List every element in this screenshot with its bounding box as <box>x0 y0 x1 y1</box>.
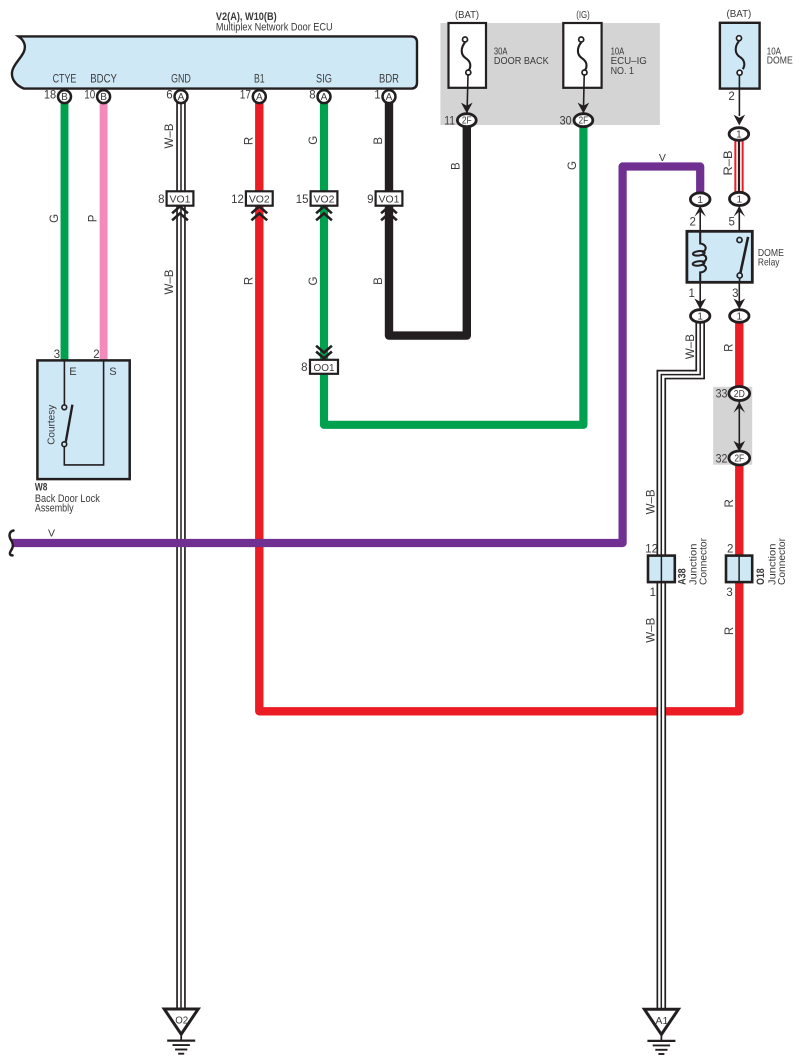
arrow into 30-2F <box>578 103 590 114</box>
svg-text:1: 1 <box>697 195 703 206</box>
svg-text:G: G <box>567 161 579 170</box>
connector 8 VO1 <box>158 191 193 220</box>
svg-text:A: A <box>386 92 393 103</box>
wire label R-B (dome feed) <box>723 150 735 175</box>
svg-text:V: V <box>48 528 55 540</box>
ECU pin 8 connector circle A <box>309 90 330 104</box>
connector 11 2F <box>444 114 476 128</box>
connector 33 2D <box>716 387 750 401</box>
svg-text:BDCY: BDCY <box>90 74 117 86</box>
pin number 3 (relay) <box>732 288 738 300</box>
svg-text:W8: W8 <box>35 482 48 494</box>
pin number 5 (relay) <box>728 216 734 228</box>
connector 1 above relay pin 5 (R-B wire) <box>730 192 750 216</box>
connector 1 (dome fuse output) <box>729 128 749 141</box>
svg-text:R: R <box>723 344 735 352</box>
relay coil <box>692 232 706 282</box>
connector 12 VO2 <box>231 191 273 220</box>
wire label W-B (GND) upper <box>164 123 176 148</box>
svg-text:B: B <box>373 137 385 145</box>
relay DOME Relay box <box>687 231 752 282</box>
wire G from ECU SIG pin 8 through OO1 down-right to ECU-IG fuse output 30-2F <box>324 100 583 425</box>
svg-text:5: 5 <box>728 216 734 228</box>
junction connector A38 <box>648 556 675 583</box>
svg-text:3: 3 <box>726 587 732 599</box>
node label V (horizontal wire) <box>48 528 55 540</box>
svg-text:1: 1 <box>650 587 656 599</box>
svg-text:VO1: VO1 <box>379 194 400 206</box>
svg-text:6: 6 <box>166 90 172 102</box>
svg-text:O18: O18 <box>755 568 767 585</box>
connector 32 2F <box>716 451 750 465</box>
connector 1 above relay pin 2 (V wire) <box>690 193 710 217</box>
wire label B (BDR) upper <box>373 137 385 145</box>
svg-text:W–B: W–B <box>645 489 657 514</box>
ground A1 <box>644 1009 678 1054</box>
svg-text:3: 3 <box>732 288 738 300</box>
relay pin 1 lead <box>699 282 701 310</box>
svg-text:W–B: W–B <box>164 269 176 294</box>
svg-text:(IG): (IG) <box>576 9 590 21</box>
pin number 2 (relay) <box>689 216 695 228</box>
label Courtesy <box>46 404 58 445</box>
relay pin 3 lead <box>738 282 740 310</box>
label O18 Junction Connector <box>755 538 788 585</box>
fuse 10A ECU-IG NO. 1 (IG) <box>563 23 601 114</box>
wire R from DOME relay pin 3 down to connector 33-2D <box>735 320 743 388</box>
svg-text:W–B: W–B <box>685 334 697 359</box>
svg-text:R: R <box>724 627 736 635</box>
arrow into dome feed connector <box>734 115 746 126</box>
continuation squiggle at left end of wire V <box>10 531 14 556</box>
svg-text:12: 12 <box>231 194 244 206</box>
svg-text:A: A <box>321 92 328 103</box>
relay switch contacts <box>737 237 748 282</box>
svg-text:32: 32 <box>716 453 728 465</box>
svg-text:2F: 2F <box>462 116 472 127</box>
junction O18 pin 3 <box>726 587 732 599</box>
junction A38 pin 12 <box>645 543 658 555</box>
fuse block shading (BAT/IG) <box>440 23 660 125</box>
link between 33-2D and 32-2F <box>734 398 746 452</box>
ECU pin label BDR <box>379 74 399 86</box>
svg-text:VO2: VO2 <box>249 194 270 206</box>
svg-text:2: 2 <box>728 91 734 103</box>
ECU V2(A) W10(B) Multiplex Network Door ECU box <box>12 36 417 88</box>
svg-text:GND: GND <box>171 74 191 86</box>
svg-text:CTYE: CTYE <box>53 74 77 86</box>
wire label R (B1) lower <box>243 277 255 285</box>
ECU pin label GND <box>171 74 191 86</box>
svg-text:Multiplex Network Door ECU: Multiplex Network Door ECU <box>216 21 333 33</box>
svg-text:R: R <box>724 499 736 507</box>
wire G from ECU CTYE pin 18 to W8 pin 3 <box>61 100 69 361</box>
svg-text:S: S <box>109 366 116 378</box>
label A38 Junction Connector <box>677 538 710 585</box>
wire R-B from DOME fuse connector to relay pin 5 connector <box>734 139 743 193</box>
svg-text:3: 3 <box>54 349 60 361</box>
svg-text:B: B <box>373 277 385 285</box>
label 10A ECU-IG NO. 1 <box>611 45 647 77</box>
relay pin 2 lead <box>699 205 701 231</box>
svg-text:10: 10 <box>84 90 95 102</box>
wire label G (CTYE) <box>49 214 61 223</box>
pin number 2 of DOME fuse <box>728 91 734 103</box>
svg-text:OO1: OO1 <box>314 362 335 374</box>
connector 1 below relay pin 3 <box>730 299 749 323</box>
svg-text:1: 1 <box>736 129 742 140</box>
svg-text:O2: O2 <box>175 1015 188 1027</box>
svg-text:15: 15 <box>296 194 309 206</box>
svg-text:G: G <box>308 276 320 285</box>
wire label B (BDR) lower <box>373 277 385 285</box>
label 30A DOOR BACK <box>494 45 549 67</box>
ECU pin 17 connector circle A <box>240 90 266 104</box>
svg-text:W–B: W–B <box>645 617 657 642</box>
arrow into 11-2F <box>461 103 473 114</box>
svg-text:Courtesy: Courtesy <box>46 404 58 445</box>
svg-text:VO2: VO2 <box>314 194 335 206</box>
junction O18 pin 2 <box>727 543 733 555</box>
W8 courtesy switch <box>62 360 104 465</box>
svg-text:1: 1 <box>374 90 380 102</box>
ECU pin 6 connector circle A <box>166 90 187 104</box>
svg-text:DOME: DOME <box>767 54 793 66</box>
svg-text:SIG: SIG <box>316 74 332 86</box>
svg-text:(BAT): (BAT) <box>455 9 479 21</box>
svg-text:(BAT): (BAT) <box>727 8 752 20</box>
svg-text:2F: 2F <box>734 453 744 464</box>
svg-text:A: A <box>178 92 185 103</box>
svg-text:2D: 2D <box>734 389 745 400</box>
ECU pin label BDCY <box>90 74 117 86</box>
svg-text:Connector: Connector <box>697 538 709 585</box>
label 10A DOME <box>767 46 793 67</box>
svg-text:8: 8 <box>309 90 315 102</box>
ECU pin label B1 <box>254 74 265 86</box>
wire B from ECU BDR pin 1 right-up to DOOR BACK fuse output 11-2F <box>389 100 467 336</box>
wire label W-B (GND) lower <box>164 269 176 294</box>
label (IG) above ECU-IG fuse <box>576 9 590 21</box>
svg-text:2: 2 <box>689 216 695 228</box>
label (BAT) above DOOR BACK fuse <box>455 9 479 21</box>
wire from DOME fuse pin 2 <box>738 76 740 116</box>
svg-text:1: 1 <box>697 311 703 322</box>
connector shading (2D/2F block) <box>713 387 752 465</box>
wire label W-B above A38 <box>645 489 657 514</box>
svg-text:33: 33 <box>716 389 728 401</box>
ECU pin 10 connector circle B <box>84 90 110 104</box>
label W8 Back Door Lock Assembly <box>35 482 100 515</box>
wire R from ECU B1 pin 17 down, right along y=711, up to junction O18 (net B1/dome) <box>259 100 739 711</box>
svg-text:A1: A1 <box>655 1015 668 1027</box>
svg-text:11: 11 <box>444 115 455 127</box>
wire label W-B (relay pin 1) <box>685 334 697 359</box>
svg-text:R: R <box>243 277 255 285</box>
svg-text:2: 2 <box>93 349 99 361</box>
svg-text:9: 9 <box>367 194 373 206</box>
fuse 30A DOOR BACK (BAT) <box>449 23 487 114</box>
svg-text:1: 1 <box>737 311 743 322</box>
wire label B (DOOR BACK fuse) <box>450 162 462 170</box>
connector 1 below relay pin 1 <box>691 299 710 323</box>
wire V from left edge to dome relay pin 2 (node V) <box>12 167 700 544</box>
svg-text:8: 8 <box>158 194 164 206</box>
wire label R below O18 <box>724 627 736 635</box>
connector 15 VO2 <box>296 191 338 220</box>
svg-text:P: P <box>88 214 100 222</box>
W8 pin 3 number <box>54 349 60 361</box>
wire W-B from ECU GND pin 6 down to ground O2 <box>176 100 186 1010</box>
wire label G (SIG) lower <box>308 276 320 285</box>
svg-text:A: A <box>256 92 263 103</box>
ECU pin label SIG <box>316 74 332 86</box>
svg-text:B1: B1 <box>254 74 265 86</box>
wire label P (BDCY) <box>88 214 100 222</box>
ECU pin 18 connector circle B <box>44 90 71 104</box>
W8 pin 2 number <box>93 349 99 361</box>
svg-text:R: R <box>243 137 255 145</box>
label DOME Relay <box>758 247 784 269</box>
svg-text:DOOR BACK: DOOR BACK <box>494 55 549 67</box>
svg-text:Assembly: Assembly <box>35 502 74 514</box>
wire label G (ECU-IG fuse) <box>567 161 579 170</box>
junction connector O18 <box>726 556 752 583</box>
wire label G (SIG) upper <box>308 136 320 145</box>
wire label R (B1) upper <box>243 137 255 145</box>
svg-text:1: 1 <box>688 288 694 300</box>
component W8 Back Door Lock Assembly box <box>37 360 129 479</box>
connector 9 VO1 <box>367 191 402 220</box>
svg-text:E: E <box>69 366 76 378</box>
wire P from ECU BDCY pin 10 to W8 pin 2 <box>100 100 108 361</box>
svg-text:17: 17 <box>240 90 251 102</box>
fuse 10A DOME (BAT) <box>720 23 760 89</box>
wire label R above O18 <box>724 499 736 507</box>
W8 pin name E <box>69 366 76 378</box>
svg-text:2F: 2F <box>579 116 589 127</box>
node label V (top purple segment) <box>659 152 666 164</box>
svg-text:1: 1 <box>737 194 743 205</box>
svg-text:12: 12 <box>645 543 658 555</box>
W8 pin name S <box>109 366 116 378</box>
connector 30 2F <box>560 114 593 128</box>
svg-text:18: 18 <box>44 90 56 102</box>
svg-text:VO1: VO1 <box>170 194 191 206</box>
svg-text:B: B <box>450 162 462 170</box>
svg-text:R–B: R–B <box>723 150 735 175</box>
junction A38 pin 1 <box>650 587 656 599</box>
ECU title V2(A), W10(B) <box>216 11 333 34</box>
svg-text:B: B <box>61 92 68 103</box>
wire label R (relay pin 3) <box>723 344 735 352</box>
svg-text:W–B: W–B <box>164 123 176 148</box>
svg-text:30: 30 <box>560 115 572 127</box>
wire W-B from DOME relay pin 1 jogging left to ground A1 <box>661 320 700 1010</box>
ECU pin label CTYE <box>53 74 77 86</box>
svg-text:B: B <box>100 92 107 103</box>
ground O2 <box>164 1009 198 1054</box>
svg-text:NO. 1: NO. 1 <box>611 65 635 77</box>
svg-text:Connector: Connector <box>776 538 788 585</box>
svg-text:V: V <box>659 152 666 164</box>
wire label W-B below A38 <box>645 617 657 642</box>
svg-text:BDR: BDR <box>379 74 399 86</box>
svg-text:8: 8 <box>301 362 307 374</box>
relay pin 5 lead <box>738 205 740 237</box>
svg-text:Relay: Relay <box>758 257 780 269</box>
svg-text:G: G <box>308 136 320 145</box>
svg-text:G: G <box>49 214 61 223</box>
label (BAT) above DOME fuse <box>727 8 752 20</box>
svg-text:2: 2 <box>727 543 733 555</box>
ECU pin 1 connector circle A <box>374 90 395 104</box>
connector 8 OO1 <box>301 346 338 375</box>
pin number 1 (relay) <box>688 288 694 300</box>
